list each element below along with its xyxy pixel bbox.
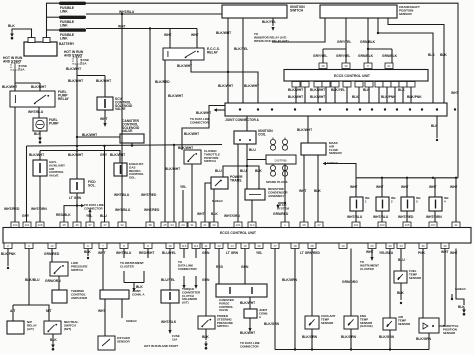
canister control solenoid label <box>122 119 140 133</box>
wire injector 1 feed WHT <box>355 178 357 197</box>
svg-text:WHT: WHT <box>450 251 458 255</box>
svg-text:ASSEMBLY: ASSEMBLY <box>268 194 284 198</box>
oxygen sensor label <box>117 336 131 343</box>
label WHT <box>118 25 126 29</box>
pin eccs bottom 24 <box>441 243 449 249</box>
np relay label <box>27 320 37 331</box>
svg-text:BLK: BLK <box>50 338 57 342</box>
svg-text:WHT/BLU: WHT/BLU <box>114 193 130 197</box>
pin eccs top 2 <box>23 222 31 228</box>
resistor condenser label <box>268 187 288 198</box>
svg-text:29: 29 <box>321 64 325 68</box>
terminal BLK/PNK <box>7 267 9 269</box>
svg-text:SOL.: SOL. <box>88 183 96 187</box>
label PNK <box>418 251 426 255</box>
wire WHT instr2 <box>371 249 373 258</box>
wire cps gry/yel bracket <box>323 49 346 63</box>
joint connector A lower left label <box>132 289 145 296</box>
svg-text:BLK/WHT: BLK/WHT <box>240 331 255 335</box>
svg-text:16: 16 <box>257 244 261 248</box>
pin eccs top 21 <box>352 222 360 228</box>
svg-text:BLK: BLK <box>352 95 359 99</box>
terminal fuel temp <box>400 302 402 304</box>
label BLK u9 <box>398 88 405 92</box>
label BLK/WHT t2 <box>68 153 83 157</box>
wire eccs upper pin 6 to joint connector A <box>346 87 348 103</box>
wire injector supply rail <box>356 177 458 179</box>
wire coolant ground <box>311 329 313 350</box>
svg-text:LT GRN/RED: LT GRN/RED <box>300 251 321 255</box>
label BLK fuel pump <box>34 132 41 136</box>
wire WHT/GRN vertical from IACV <box>39 176 41 222</box>
spark plug 2 <box>282 138 287 151</box>
svg-text:RED/WHT: RED/WHT <box>139 251 154 255</box>
wire WHT oxygen <box>102 249 104 291</box>
svg-text:WHT: WHT <box>350 185 358 189</box>
svg-text:LINK: LINK <box>60 9 68 13</box>
svg-text:BLK/YEL: BLK/YEL <box>262 20 276 24</box>
svg-text:WHT: WHT <box>299 189 307 193</box>
svg-text:37: 37 <box>88 223 92 227</box>
wire trunk rail B <box>40 151 120 164</box>
svg-text:SENSOR: SENSOR <box>398 322 411 326</box>
wire YEL/BLU air <box>389 249 391 319</box>
wire injector 1 out <box>355 211 357 222</box>
eccs control unit upper <box>284 70 428 82</box>
label RED/WHT instr <box>139 251 154 255</box>
svg-text:BLK: BLK <box>363 88 370 92</box>
wire data link 2b <box>195 276 197 285</box>
fuel temp label <box>409 269 422 280</box>
label WHT/BLK <box>161 320 177 324</box>
ground fuel pump <box>38 135 42 144</box>
wire fuse left down <box>15 70 40 83</box>
label WHT/RED mid <box>141 193 157 197</box>
joint conn a small label <box>259 308 268 319</box>
svg-text:116: 116 <box>182 244 187 248</box>
injector 1 <box>350 197 363 211</box>
wire GRY vertical left <box>26 146 28 222</box>
pin eccs bottom 22 <box>397 243 405 249</box>
wire battery positive to fusible links <box>47 3 60 37</box>
label BLK/WHT e <box>96 79 111 83</box>
svg-text:SYSTEM: SYSTEM <box>277 206 289 210</box>
svg-text:BLK/WHT: BLK/WHT <box>31 85 46 89</box>
wire eccs relay feeds <box>170 29 197 49</box>
label BLK right2 <box>440 53 447 57</box>
wire eccs relay output BLK/WHT <box>191 60 258 103</box>
svg-text:BLK/WHT: BLK/WHT <box>216 31 231 35</box>
svg-text:14: 14 <box>230 244 234 248</box>
svg-text:23: 23 <box>181 223 185 227</box>
label BLK/WHT canister <box>82 133 97 137</box>
scv control solenoid valve <box>97 97 113 110</box>
svg-text:19: 19 <box>341 244 345 248</box>
label WHT pt <box>197 212 205 216</box>
svg-text:(M/T): (M/T) <box>64 327 71 331</box>
wire data link 2 <box>195 249 197 259</box>
wire coil feed <box>246 116 248 131</box>
label SHIELD right <box>455 287 466 291</box>
label WHT scv <box>100 117 108 121</box>
pin eccs top 12 <box>179 222 187 228</box>
svg-text:GRN/BLK: GRN/BLK <box>358 54 374 58</box>
label to data line connector upper <box>190 117 211 124</box>
label BLK ft <box>397 291 404 295</box>
pin eccs upper 30 <box>342 63 350 69</box>
eccs relay <box>163 48 204 60</box>
wire cps grn/blk bracket <box>368 49 392 63</box>
fusible link 1 label <box>60 6 75 13</box>
junction ground bus 2 <box>311 348 313 350</box>
spark plug 1 <box>270 138 275 151</box>
svg-text:BLK/GRN: BLK/GRN <box>302 335 318 339</box>
svg-text:RED: RED <box>216 265 224 269</box>
wire trunk rail A <box>27 145 223 147</box>
label BLK 88 <box>84 250 91 254</box>
svg-text:15A: 15A <box>19 67 25 71</box>
injector 3 <box>401 197 414 211</box>
pin eccs top 10 <box>161 222 169 228</box>
mass air flow sensor label <box>329 141 343 155</box>
svg-text:WHT/RED: WHT/RED <box>4 207 20 211</box>
label hot in run and start left <box>3 56 23 63</box>
label BLK/GRN tps <box>416 337 432 341</box>
svg-text:BLK: BLK <box>255 169 262 173</box>
svg-text:BLK/BLU: BLK/BLU <box>25 278 40 282</box>
svg-text:WHT: WHT <box>401 185 409 189</box>
svg-text:WHT/BLU: WHT/BLU <box>119 10 135 14</box>
label GRN/BLK b <box>358 54 374 58</box>
pin eccs top 13 <box>188 222 196 228</box>
svg-text:13: 13 <box>217 244 221 248</box>
svg-text:41: 41 <box>454 223 458 227</box>
svg-text:15A: 15A <box>81 61 87 65</box>
coolant temp sensor <box>305 316 319 329</box>
pin eccs top 14 <box>201 222 209 228</box>
wire tc down WHT/BLK <box>169 303 171 330</box>
label M/T <box>46 309 52 313</box>
svg-text:SOL.: SOL. <box>129 176 136 180</box>
svg-text:10: 10 <box>168 244 172 248</box>
arrow data link 1 <box>182 285 185 289</box>
arrow yel stub <box>88 209 91 212</box>
wire LT GRN cp <box>218 249 220 285</box>
wire ign sw BLK/WHT down <box>227 18 229 103</box>
svg-text:SHIELD: SHIELD <box>126 319 137 323</box>
svg-text:47: 47 <box>103 223 107 227</box>
eccs control unit band label <box>220 231 257 235</box>
label BLK/YEL ign <box>262 20 276 24</box>
svg-text:BLK/GRN: BLK/GRN <box>264 322 280 326</box>
wire to data line stub <box>77 205 81 207</box>
closed throttle position switch label <box>204 149 220 163</box>
label BLK/WHT jc2 <box>184 132 199 136</box>
pin eccs top 5 <box>73 222 81 228</box>
svg-text:104: 104 <box>12 223 17 227</box>
svg-text:GRN/RED: GRN/RED <box>273 212 289 216</box>
svg-text:BLK: BLK <box>428 53 435 57</box>
svg-text:WHT: WHT <box>450 185 458 189</box>
wire joint connector A right tail <box>436 116 438 138</box>
arrow tc fuse <box>168 330 171 334</box>
junction rail A gry <box>103 145 105 147</box>
label BLK/WHT maf <box>297 128 312 132</box>
wire distributor down <box>284 164 286 222</box>
svg-text:CONNECTOR: CONNECTOR <box>178 267 197 271</box>
label to inhibitor relay <box>254 32 289 43</box>
label BLK/YEL ign c <box>234 47 248 51</box>
crankshaft position sensor <box>320 5 397 18</box>
svg-text:(A/T): (A/T) <box>27 327 34 331</box>
wire coil pin WHT/GRN <box>237 144 239 222</box>
arrow instr cluster <box>132 288 135 292</box>
fuel pump <box>33 118 47 131</box>
wire maf out WHT <box>303 155 305 222</box>
wire rail B to IACV <box>39 151 41 161</box>
pin eccs bottom 12 <box>215 243 223 249</box>
wire fuel pump ground <box>39 131 41 135</box>
label BLK/WHT d <box>68 79 83 83</box>
pin eccs top 23 <box>403 222 411 228</box>
label WHT maf <box>299 189 307 193</box>
wire gry mid vertical <box>104 146 106 222</box>
svg-text:BLU/YEL: BLU/YEL <box>162 251 176 255</box>
wire to ac stub <box>278 202 285 204</box>
label WHT/BLU inj 2 <box>373 215 389 219</box>
label BLU mid <box>100 214 107 218</box>
label BLK ps <box>202 335 209 339</box>
label GRY left <box>22 214 30 218</box>
svg-text:25: 25 <box>163 223 167 227</box>
pin eccs top 17 <box>248 222 256 228</box>
svg-text:(A/T): (A/T) <box>182 301 189 305</box>
junction rail A x172 <box>173 144 175 146</box>
svg-text:24: 24 <box>170 223 174 227</box>
svg-text:ECCS CONTROL UNIT: ECCS CONTROL UNIT <box>334 74 371 78</box>
wire power transistor pin2 <box>205 183 211 222</box>
svg-text:VALVE: VALVE <box>49 174 59 178</box>
arrow instr2 <box>370 257 373 261</box>
wire battery negative <box>12 29 32 38</box>
wire RED/WHT instr <box>147 249 149 259</box>
ground power steering <box>204 341 208 350</box>
svg-text:21: 21 <box>203 223 207 227</box>
junction ground bus 3 <box>350 348 352 350</box>
svg-text:GRN/RED: GRN/RED <box>44 252 60 256</box>
wire neutral branch3 <box>29 305 49 321</box>
wire cps GRY/YEL <box>345 18 347 49</box>
label GRN ps <box>202 251 210 255</box>
pin eccs top 15 <box>210 222 218 228</box>
wire coil BLU down <box>246 144 248 166</box>
pin eccs top 7 <box>101 222 109 228</box>
svg-text:BLK/WHT: BLK/WHT <box>66 67 81 71</box>
wire rail A to pin 172 <box>173 145 175 222</box>
pin eccs upper out 1 <box>292 82 300 88</box>
svg-text:15A: 15A <box>172 337 178 341</box>
wire data link 1b <box>183 276 185 285</box>
label GRY/YEL b <box>313 54 327 58</box>
wire injector 2 out <box>381 211 383 222</box>
label WHT/BLU mid <box>114 193 130 197</box>
junction ground bus 1 <box>294 348 296 350</box>
arrow maf shield <box>323 162 327 165</box>
wire blk branch to resistor <box>247 166 259 189</box>
eccs relay label <box>207 47 220 54</box>
wire air temp ground <box>389 330 391 350</box>
wire cps left exit <box>272 18 325 42</box>
svg-text:103: 103 <box>379 223 384 227</box>
svg-text:114: 114 <box>194 244 199 248</box>
label LT GRN band <box>69 196 82 200</box>
svg-text:CLUSTER: CLUSTER <box>120 264 135 268</box>
label BLK right1 <box>428 53 435 57</box>
wire data link 1 <box>183 249 185 259</box>
label to data line connector mid <box>84 203 104 210</box>
label YEL/BLU <box>379 251 394 255</box>
wire GRN ps <box>205 249 207 317</box>
pin eccs top 20 <box>315 222 323 228</box>
svg-text:WHT: WHT <box>191 33 199 37</box>
wire canister to trunk <box>131 143 133 147</box>
arrow to data line mid <box>81 204 85 207</box>
junction relay output ign wire <box>227 71 229 73</box>
wire shield stub <box>451 294 453 299</box>
wire blu branch to power transistor <box>223 166 247 177</box>
label WHT shield <box>450 251 458 255</box>
svg-text:107: 107 <box>430 223 435 227</box>
label GRY/YEL c <box>336 54 350 58</box>
junction injector rail 1 <box>381 177 383 179</box>
wire power transistor pins <box>213 189 215 222</box>
junction distributor wire <box>284 202 286 204</box>
svg-text:WHT/GRN: WHT/GRN <box>426 215 442 219</box>
svg-text:26: 26 <box>302 223 306 227</box>
fuel pump relay <box>10 91 55 107</box>
svg-text:SENSOR: SENSOR <box>329 151 343 155</box>
torque converter clutch solenoid <box>161 290 179 303</box>
label BLK/YEL u5 <box>331 88 345 92</box>
label BLK pt <box>211 212 218 216</box>
wire ign sw BLK/YEL stub <box>272 18 274 26</box>
torque converter label <box>182 287 201 305</box>
wire LT GRN/RED coolant <box>311 249 313 317</box>
pin eccs top 9 <box>146 222 154 228</box>
label WHT o2 <box>98 251 106 255</box>
wire eccs upper pin 3 to joint connector A <box>317 87 319 103</box>
fuel pump relay label <box>58 90 70 101</box>
engine temp sensor <box>344 316 358 329</box>
wire left WHT/RED vertical <box>14 107 16 222</box>
wire neutral branch2 <box>13 304 29 306</box>
svg-text:RELAY: RELAY <box>58 97 70 101</box>
svg-text:SWITCH: SWITCH <box>204 159 216 163</box>
svg-text:BLK/GRN: BLK/GRN <box>379 335 395 339</box>
svg-text:ECCS CONTROL UNIT: ECCS CONTROL UNIT <box>220 231 257 235</box>
pin eccs upper out 4 <box>322 82 330 88</box>
wire lp to thermo GRN/ORN <box>58 276 60 290</box>
pin eccs bottom 23 <box>419 243 427 249</box>
mass air flow sensor <box>301 143 326 155</box>
svg-text:BLK/WHT: BLK/WHT <box>177 64 192 68</box>
label WHT right <box>450 185 458 189</box>
svg-text:31: 31 <box>190 223 194 227</box>
junction ground bus 4 <box>389 348 391 350</box>
label BLK/WHT left b <box>31 85 46 89</box>
svg-text:GRY/YEL: GRY/YEL <box>336 54 350 58</box>
label BLK/WHT ign d <box>244 84 259 88</box>
label GRN cp <box>241 265 249 269</box>
pin eccs top 25 <box>452 222 460 228</box>
wire cp to jc <box>249 297 251 309</box>
pin eccs upper out 8 <box>365 82 373 88</box>
pin eccs bottom 8 <box>166 243 174 249</box>
crankshaft position sensor label <box>399 5 420 16</box>
label BLK maf <box>314 189 321 193</box>
svg-text:VALVE: VALVE <box>219 308 228 312</box>
wire BLK/RED trunk <box>164 60 166 222</box>
arrow data link 2 <box>194 285 197 289</box>
svg-text:SENSOR: SENSOR <box>117 339 131 343</box>
exhaust gas recirculation control solenoid <box>114 163 127 176</box>
svg-text:WHT: WHT <box>366 250 374 254</box>
label A/T <box>10 309 15 313</box>
label BLK/WHT left a <box>2 85 17 89</box>
pin eccs top 18 <box>281 222 289 228</box>
pin eccs bottom 14 <box>241 243 249 249</box>
wire eccs upper pin 10 to joint connector A <box>386 87 388 103</box>
svg-text:27: 27 <box>317 223 321 227</box>
junction cps grn/blk <box>367 48 369 50</box>
junction rail B fuse feed <box>76 149 78 151</box>
label WHT/BLU <box>119 10 135 14</box>
label INJ 4 <box>444 196 449 203</box>
wire cps GRN/BLK <box>367 18 369 49</box>
wire scv down WHT <box>104 110 106 123</box>
label to instrument cluster <box>120 261 144 268</box>
fuse 15A second <box>73 57 81 64</box>
svg-text:WHT: WHT <box>376 185 384 189</box>
junction joint connector A 14 <box>454 108 456 110</box>
svg-text:34: 34 <box>399 244 403 248</box>
air temp sensor <box>383 318 396 330</box>
junction joint connector A 2 <box>257 108 259 110</box>
svg-text:SENSOR: SENSOR <box>443 331 456 335</box>
svg-text:BLK/PNK: BLK/PNK <box>1 252 16 256</box>
svg-text:BLK/WHT: BLK/WHT <box>310 95 325 99</box>
junction joint connector A 4 <box>294 108 296 110</box>
pin eccs bottom 13 <box>228 243 236 249</box>
label INJ 1 <box>365 196 370 203</box>
wire eng temp ground <box>350 329 352 350</box>
ignition coil <box>234 131 256 144</box>
label BLK/WHT u1 <box>288 88 303 92</box>
label BLK jca tail <box>431 124 438 128</box>
pin eccs bottom 9 <box>180 243 188 249</box>
svg-text:LINK: LINK <box>60 36 68 40</box>
label BLK/WHT ign b <box>218 84 233 88</box>
junction wht drop <box>149 27 151 29</box>
svg-text:BLK/RED: BLK/RED <box>155 80 170 84</box>
pin eccs top 19 <box>300 222 308 228</box>
svg-text:SPARK PLUGS: SPARK PLUGS <box>266 180 287 184</box>
wire cps BLK right 1 <box>388 18 444 103</box>
low pressure switch label <box>71 261 88 272</box>
wire eccs upper pin 8 to joint connector A <box>368 87 370 103</box>
wire fuel pump relay to fuel pump WHT/BLU <box>38 107 40 118</box>
spark plug 4 <box>282 164 287 177</box>
